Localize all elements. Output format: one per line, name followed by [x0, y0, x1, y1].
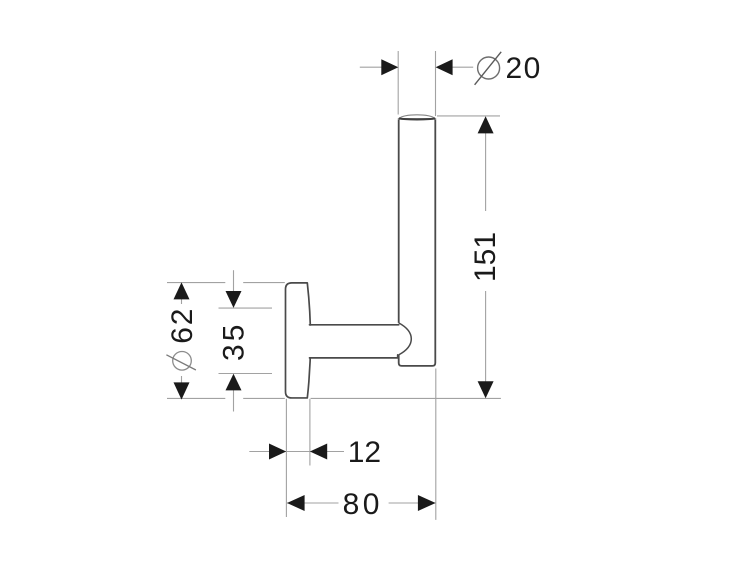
svg-text:12: 12 [348, 436, 381, 469]
svg-text:35: 35 [217, 322, 250, 361]
svg-text:80: 80 [343, 488, 383, 521]
svg-text:20: 20 [506, 52, 542, 85]
svg-text:151: 151 [469, 232, 502, 282]
svg-text:62: 62 [166, 307, 199, 344]
